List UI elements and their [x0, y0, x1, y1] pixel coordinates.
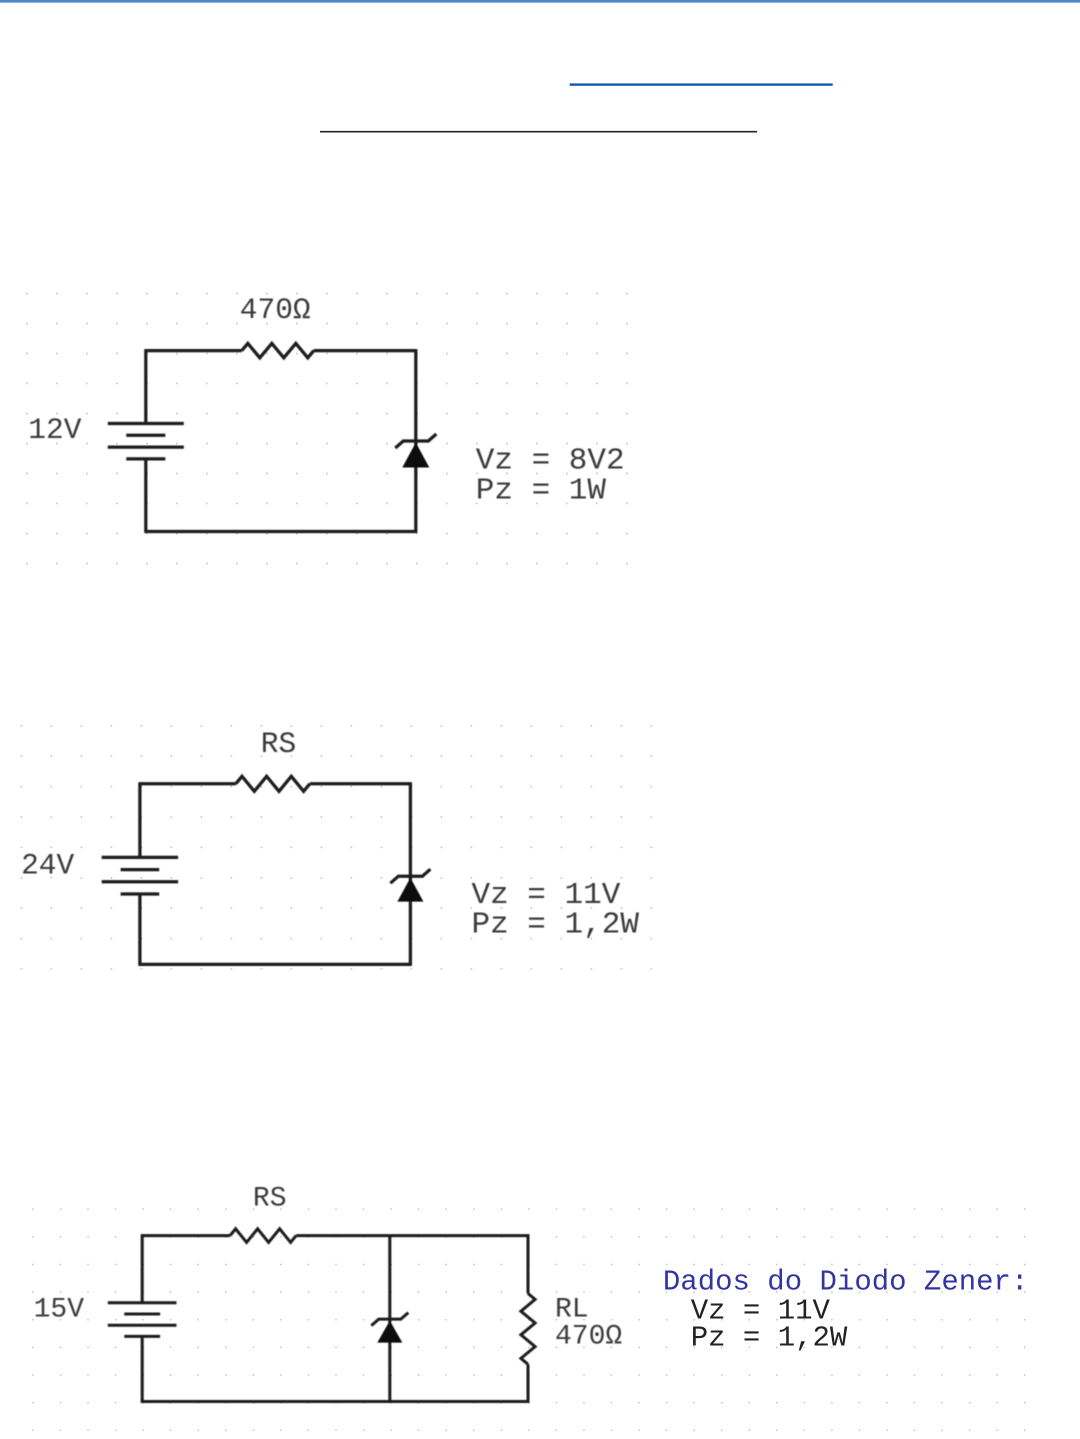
svg-text:15V: 15V [34, 1295, 85, 1326]
black horizontal rule [320, 131, 757, 133]
battery V3 15V [108, 1301, 177, 1304]
wire top-left segment circuit 3 [142, 1234, 230, 1237]
zener diode D1 anode triangle [402, 443, 429, 468]
resistor R 470Ω zigzag [242, 343, 314, 357]
svg-text:RS: RS [253, 1184, 287, 1215]
wire top-left segment circuit 2 [140, 782, 236, 785]
zener diode D2 cathode bar [390, 869, 430, 883]
grid dots circuit 1 [25, 291, 629, 566]
wire left upper segment circuit 2 [138, 782, 141, 857]
wire left lower segment circuit 2 [138, 894, 141, 964]
svg-text:Pz = 1,2W: Pz = 1,2W [691, 1321, 848, 1354]
wire left upper segment circuit 1 [144, 349, 147, 423]
wire top-right segment circuit 1 [314, 349, 416, 352]
resistor RS zigzag circuit 2 [236, 776, 310, 791]
blue horizontal rule [570, 83, 833, 85]
zener diode D3 anode triangle [377, 1321, 402, 1343]
wire middle zener branch circuit 3 [388, 1236, 391, 1402]
svg-text:Pz = 1,2W: Pz = 1,2W [472, 907, 640, 942]
wire bottom circuit 1 [144, 530, 417, 533]
wire top-right segment circuit 2 [310, 782, 411, 785]
wire right circuit 1 [414, 349, 417, 531]
top blue page border bar [0, 0, 1080, 3]
wire left lower segment circuit 1 [144, 459, 147, 532]
svg-text:Pz = 1W: Pz = 1W [476, 474, 607, 509]
svg-text:RS: RS [261, 727, 296, 761]
resistor RL zigzag circuit 3 [521, 1294, 535, 1365]
wire top-right segment circuit 3 [296, 1234, 528, 1237]
grid dots circuit 2 [19, 724, 652, 970]
resistor RS zigzag circuit 3 [230, 1229, 296, 1243]
wire left lower segment circuit 3 [141, 1336, 144, 1401]
svg-text:470Ω: 470Ω [240, 293, 311, 327]
wire bottom circuit 3 [141, 1400, 530, 1403]
zener diode D1 cathode bar [395, 434, 436, 448]
svg-text:12V: 12V [28, 413, 81, 447]
wire left upper segment circuit 3 [141, 1234, 144, 1303]
zener diode D2 anode triangle [397, 878, 423, 902]
battery V2 24V [102, 856, 178, 859]
wire right lower segment circuit 3 [527, 1364, 530, 1401]
wire right circuit 2 [409, 782, 412, 964]
zener diode D3 cathode bar [371, 1313, 408, 1326]
svg-text:470Ω: 470Ω [555, 1322, 622, 1353]
svg-text:24V: 24V [21, 849, 74, 883]
wire top-left segment circuit 1 [146, 349, 242, 352]
wire right upper segment circuit 3 [527, 1234, 530, 1293]
wire bottom circuit 2 [138, 963, 412, 966]
grid dots circuit 3 [31, 1207, 1026, 1439]
battery V1 12V [108, 422, 184, 425]
